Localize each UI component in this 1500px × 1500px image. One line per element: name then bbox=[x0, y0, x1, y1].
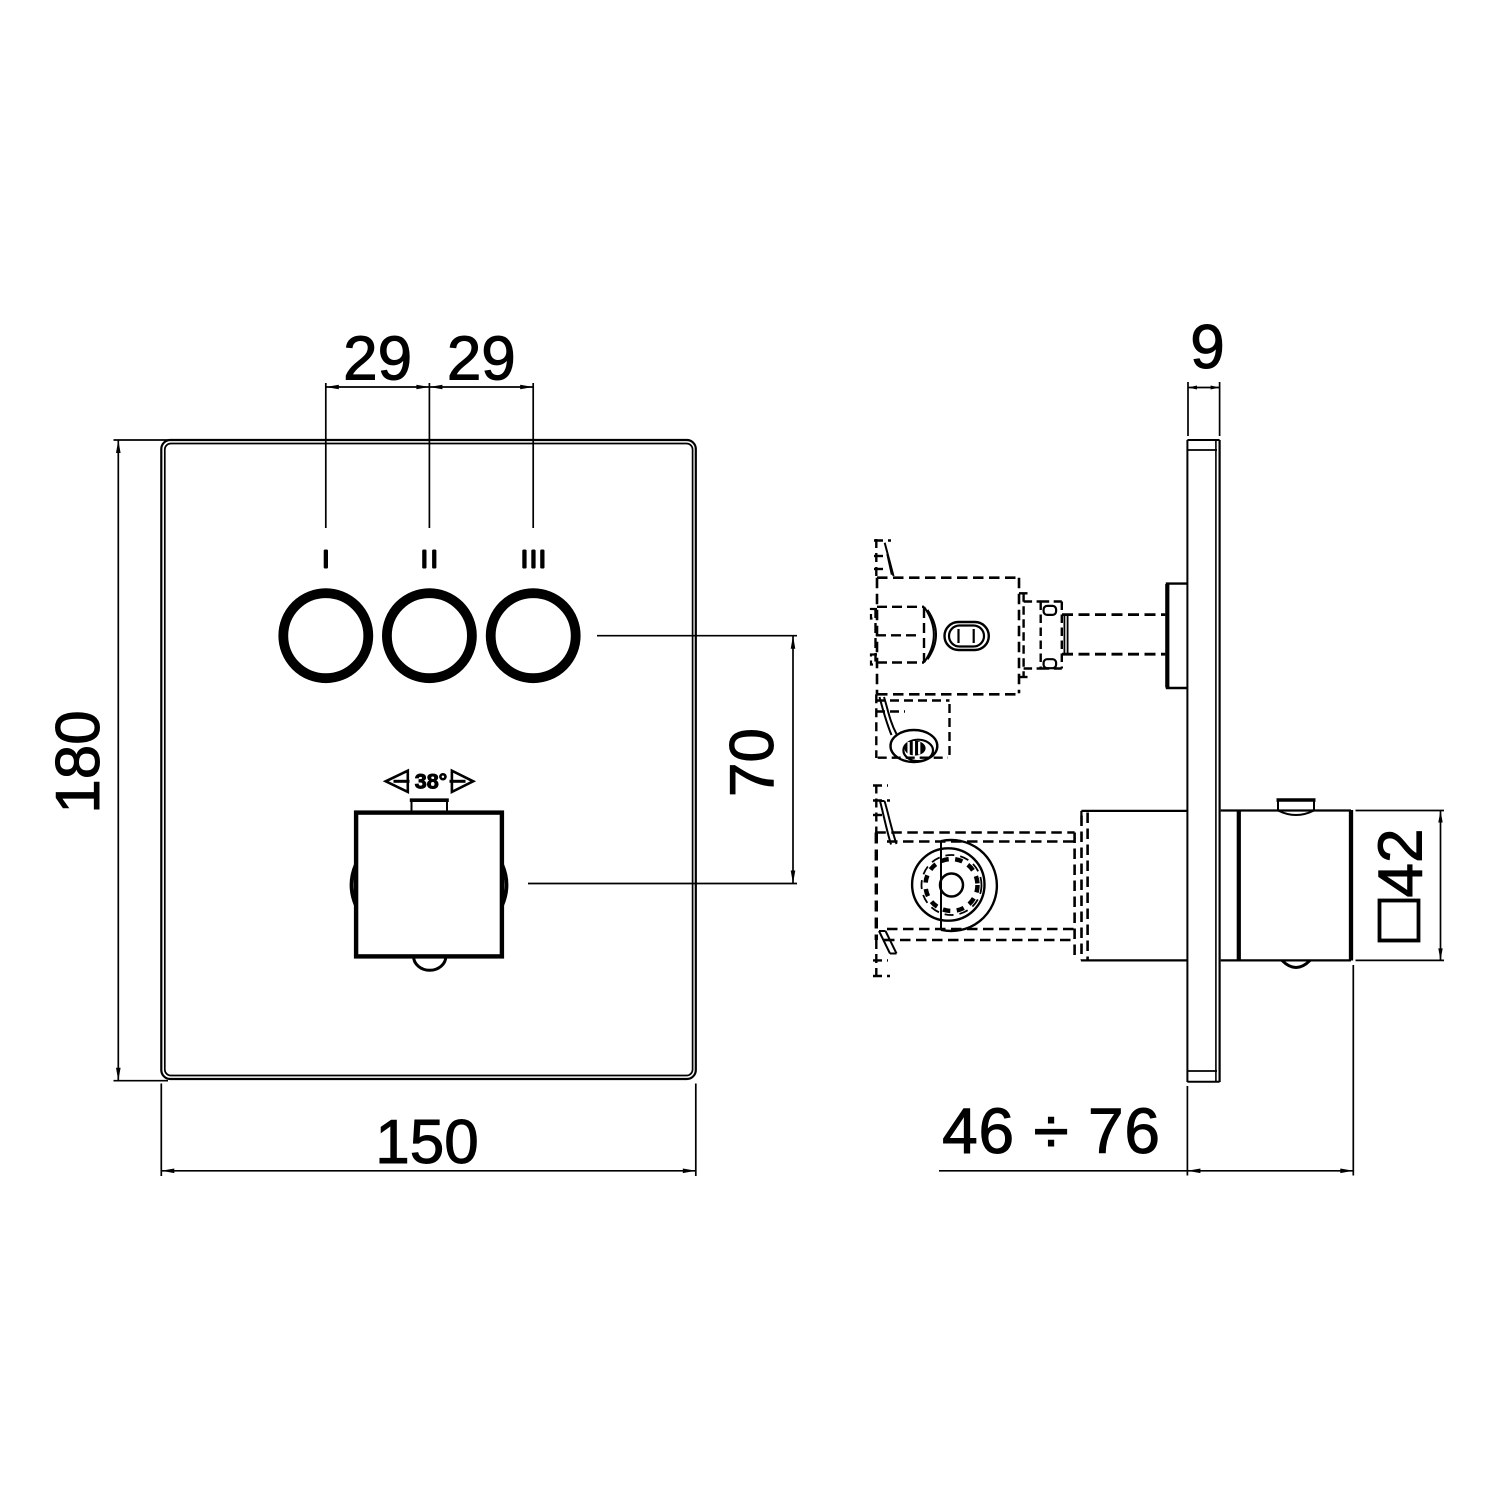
dimension 70 leader lines bbox=[528, 636, 797, 884]
svg-text:70: 70 bbox=[718, 728, 787, 797]
label I bbox=[324, 550, 328, 569]
side plate front face bbox=[1186, 440, 1188, 1082]
lower bottom ear clip bbox=[879, 931, 897, 954]
cartridge spindle circle bbox=[940, 874, 963, 897]
label III bbox=[522, 550, 544, 569]
upper lug screw head bbox=[904, 741, 925, 756]
svg-text:180: 180 bbox=[44, 710, 113, 813]
thermostatic cartridge (hidden) bbox=[876, 607, 925, 663]
lower valve top mounting ear (hidden) bbox=[873, 785, 890, 833]
cartridge dome cap bbox=[924, 607, 936, 663]
dimension 42 extension lines bbox=[1356, 811, 1445, 961]
handle bottom bump bbox=[1282, 960, 1310, 967]
volume control inner housing circle bbox=[912, 848, 984, 920]
cartridge flat chord bbox=[940, 841, 942, 930]
cartridge hidden circle thin bbox=[922, 855, 982, 915]
knob right side bump bbox=[502, 865, 506, 906]
outlet port outer oval bbox=[945, 622, 989, 650]
knob top tab bbox=[412, 801, 448, 812]
side plate bottom edge bbox=[1187, 1081, 1219, 1083]
dimension 42 line bbox=[1440, 811, 1442, 961]
dimension 29/29 arrowheads bbox=[326, 385, 533, 390]
valve bonnet step (hidden) bbox=[1019, 593, 1062, 677]
upper body inlet stubs bbox=[871, 609, 877, 665]
handle top button cap bbox=[1277, 798, 1316, 802]
thermostat knob square bbox=[356, 813, 502, 957]
lower valve body left edge (hidden) bbox=[875, 833, 878, 941]
dimension 42 arrowheads bbox=[1438, 811, 1442, 961]
button circle III bbox=[491, 593, 576, 678]
knob bottom bump bbox=[414, 957, 446, 971]
outlet port inner oval bbox=[949, 626, 984, 647]
volume control outer housing arc bbox=[941, 840, 997, 931]
dimension 70 line bbox=[792, 636, 794, 884]
valve stem (hidden) bbox=[1062, 615, 1165, 655]
upper body top mounting ear bbox=[874, 539, 891, 578]
handle bottom edge bbox=[1221, 959, 1351, 961]
svg-text:29: 29 bbox=[343, 325, 412, 394]
knob left side bump bbox=[352, 865, 356, 906]
lower body right hidden edges bbox=[1075, 813, 1088, 961]
svg-text:46 ÷ 76: 46 ÷ 76 bbox=[942, 1095, 1161, 1167]
lower top ear clip bbox=[880, 801, 897, 845]
extension block top edge bbox=[1081, 810, 1187, 812]
dimension text square-42 (rotated) bbox=[1367, 829, 1436, 941]
label II bbox=[422, 550, 436, 569]
dimension 46-76 line with leader bbox=[939, 1170, 1354, 1172]
dimension 150 extension lines bbox=[161, 1084, 696, 1177]
lower valve body (hidden) bbox=[875, 833, 1075, 941]
lower valve bottom mounting ear (hidden) bbox=[873, 940, 890, 976]
outlet port slots bbox=[959, 629, 974, 643]
knob top tab cap bbox=[410, 798, 449, 802]
handle top button base arc bbox=[1278, 811, 1314, 816]
38 degree left arrow bbox=[386, 771, 410, 792]
dimension 180 extension lines bbox=[114, 440, 169, 1081]
dimension 9 arrowheads bbox=[1188, 386, 1220, 390]
svg-text:42: 42 bbox=[1367, 829, 1436, 898]
button circle II bbox=[387, 593, 472, 678]
dimension 180 line bbox=[117, 440, 119, 1081]
38 degree right arrow bbox=[450, 771, 474, 792]
svg-text:150: 150 bbox=[375, 1108, 478, 1177]
stem collar bbox=[1064, 615, 1067, 655]
handle rear step bbox=[1237, 811, 1241, 960]
dimension 9 extension lines bbox=[1188, 382, 1220, 436]
svg-text:38°: 38° bbox=[415, 770, 448, 794]
upper valve body (hidden) bbox=[877, 578, 1019, 695]
handle top edge bbox=[1221, 809, 1351, 811]
svg-text:9: 9 bbox=[1190, 313, 1224, 382]
cartridge hidden circle bold bbox=[926, 859, 978, 911]
dimension 150 arrowheads bbox=[161, 1169, 696, 1174]
side plate top fillet line bbox=[1187, 449, 1217, 451]
upper lug screw boss ring bbox=[891, 730, 938, 762]
dimension 29/29 line bbox=[326, 386, 533, 388]
extension block bottom edge bbox=[1081, 959, 1187, 961]
bonnet ear bottom bbox=[1044, 659, 1057, 668]
side plate top edge bbox=[1187, 439, 1219, 441]
svg-text:29: 29 bbox=[447, 325, 516, 394]
upper body top ear clip bbox=[885, 543, 894, 576]
upper trim flange bottom bbox=[1166, 687, 1188, 689]
dimension 150 line bbox=[161, 1170, 696, 1172]
bonnet ear top bbox=[1044, 606, 1057, 615]
dimension 180 arrowheads bbox=[116, 440, 121, 1081]
upper trim flange top bbox=[1166, 582, 1188, 584]
side plate bottom fillet line bbox=[1187, 1070, 1217, 1072]
handle front face bbox=[1349, 810, 1353, 961]
upper body lower mounting lug (hidden) bbox=[876, 694, 950, 758]
side plate wall-side edge bbox=[1218, 440, 1220, 1082]
dimension 9 line bbox=[1188, 387, 1220, 389]
upper lug screw boss inner bbox=[903, 740, 933, 761]
dimension 46-76 extension lines bbox=[939, 965, 1354, 1176]
front plate inner edge line bbox=[165, 444, 693, 1076]
dimension 46-76 arrowheads bbox=[1187, 1169, 1353, 1174]
extension block top step bbox=[1080, 811, 1082, 816]
upper lug clip bbox=[880, 697, 897, 735]
upper trim flange bbox=[1165, 584, 1169, 688]
handle top button sides bbox=[1278, 802, 1314, 811]
front plate outer edge bbox=[161, 440, 696, 1079]
dimension 29/29 extension lines bbox=[326, 383, 533, 528]
dimension 70 arrowheads bbox=[791, 636, 796, 884]
button circle I bbox=[283, 593, 368, 678]
side plate face fillet line bbox=[1215, 440, 1217, 1082]
